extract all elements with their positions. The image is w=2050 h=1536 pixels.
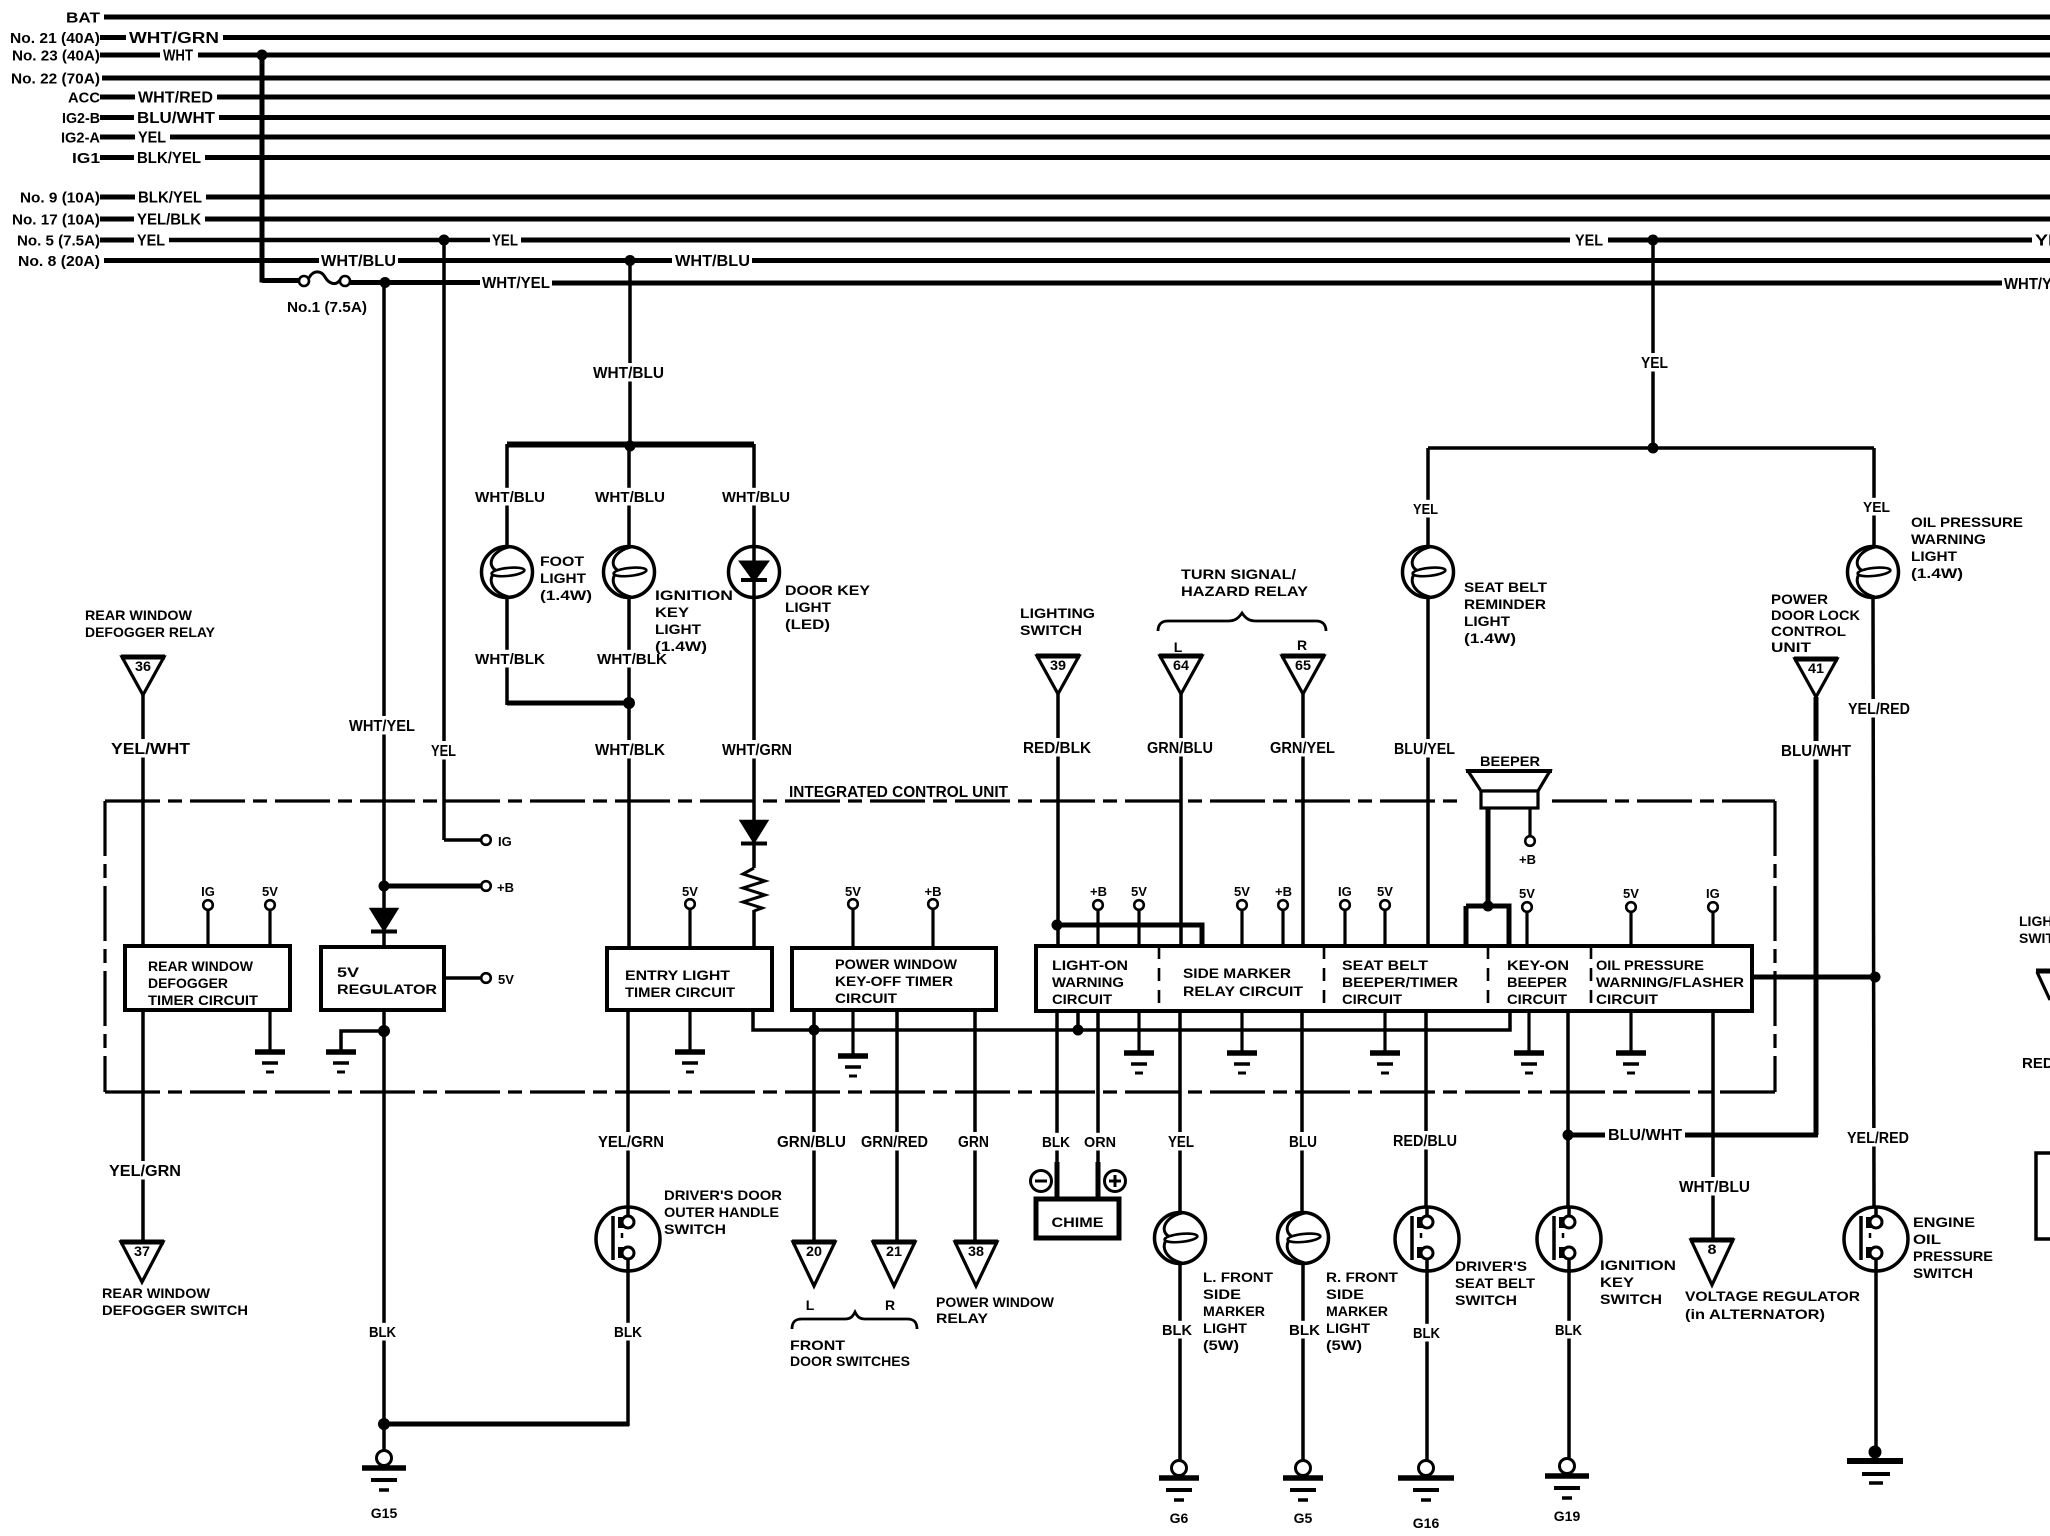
wire BLU/WHT connector 41 down — [1814, 697, 1819, 1135]
svg-text:UNIT: UNIT — [1771, 639, 1812, 655]
svg-text:YEL/GRN: YEL/GRN — [598, 1134, 664, 1151]
label SEAT BELT BEEPER/TIMER CIRCUIT — [1342, 958, 1458, 1007]
lamp SEAT BELT REMINDER LIGHT (1.4W) — [1403, 547, 1454, 598]
net label BLK (chime) — [1039, 1133, 1073, 1151]
label LIGHT-ON WARNING CIRCUIT — [1052, 958, 1128, 1007]
svg-text:LIGH: LIGH — [2019, 913, 2050, 929]
brace FRONT DOOR SWITCHES — [792, 1312, 917, 1329]
svg-text:SIDE MARKER: SIDE MARKER — [1183, 966, 1291, 981]
wire ground stem (oil pressure) — [1629, 1010, 1632, 1051]
svg-text:IGNITION: IGNITION — [1600, 1257, 1676, 1273]
wire staple feed to box top — [1466, 906, 1509, 946]
terminal +B (power window) — [928, 899, 938, 909]
net label ORN (chime) — [1081, 1133, 1119, 1151]
bus wire No. 22 (70A) — [102, 76, 2050, 81]
wire ORN light-on box to chime plus — [1096, 1010, 1100, 1164]
ground G16 — [1398, 1461, 1454, 1532]
svg-text:POWER WINDOW: POWER WINDOW — [835, 957, 957, 972]
wire regulator box to ground junction — [382, 1010, 386, 1031]
junction ground branch (x384 y1031) — [378, 1025, 390, 1037]
svg-text:LIGHT: LIGHT — [1464, 613, 1510, 629]
svg-text:BLK: BLK — [369, 1324, 396, 1341]
pin stem IG (rear defogger) — [206, 909, 209, 946]
terminal IG (oil pressure) — [1708, 902, 1718, 912]
svg-text:IG: IG — [1338, 884, 1352, 899]
wire BLK L bulb to G6 — [1178, 1263, 1182, 1462]
svg-text:G16: G16 — [1413, 1515, 1440, 1531]
chime minus symbol — [1031, 1171, 1052, 1192]
svg-text:BLK/YEL: BLK/YEL — [138, 190, 202, 207]
net label BLK (L side marker) — [1159, 1321, 1195, 1339]
junction on No.5 at x444 — [439, 235, 450, 246]
svg-text:YEL/WHT: YEL/WHT — [111, 741, 190, 758]
pressure-switch ENGINE OIL PRESSURE SWITCH — [1844, 1207, 1908, 1271]
svg-text:WHT/BLU: WHT/BLU — [595, 489, 665, 506]
wire key-on box to ignition key switch — [1566, 1010, 1570, 1208]
svg-text:LIGHT: LIGHT — [785, 599, 831, 615]
svg-text:L: L — [806, 1297, 815, 1313]
connector 8 VOLTAGE REGULATOR — [1690, 1240, 1734, 1285]
label ENTRY LIGHT TIMER CIRCUIT — [625, 968, 736, 1000]
svg-text:SIDE: SIDE — [1203, 1287, 1241, 1302]
wire +B stem from beeper — [1528, 808, 1531, 836]
pin stem +B (power window) — [931, 908, 934, 948]
label TURN SIGNAL/HAZARD RELAY — [1181, 566, 1309, 599]
label REAR WINDOW DEFOGGER SWITCH — [102, 1285, 248, 1318]
wire WHT/BLU oil box to voltage regulator — [1711, 1010, 1715, 1240]
ground G5 — [1283, 1461, 1323, 1527]
pin stem 5V (entry light) — [688, 908, 691, 948]
junction rail at x1078 — [1073, 1025, 1084, 1036]
ground power window timer — [838, 1056, 868, 1076]
svg-text:BLU/WHT: BLU/WHT — [137, 110, 215, 127]
svg-text:DRIVER'S DOOR: DRIVER'S DOOR — [664, 1187, 782, 1203]
wire YEL/RED lamp down to engine switch — [1873, 597, 1874, 1208]
svg-text:WARNING/FLASHER: WARNING/FLASHER — [1596, 975, 1744, 990]
svg-text:No.1 (7.5A): No.1 (7.5A) — [287, 299, 367, 316]
junction on No.8 at x630 — [625, 255, 636, 266]
bus wire No.8 mid — [398, 258, 672, 263]
svg-text:BEEPER/TIMER: BEEPER/TIMER — [1342, 975, 1458, 990]
svg-text:5V: 5V — [1131, 884, 1147, 899]
wire diode to regulator box — [382, 930, 386, 947]
svg-text:INTEGRATED CONTROL UNIT: INTEGRATED CONTROL UNIT — [789, 784, 1009, 801]
ICU border bottom — [105, 1090, 1775, 1093]
svg-text:LIGHT: LIGHT — [1203, 1321, 1248, 1336]
pressure-switch DRIVER'S SEAT BELT SWITCH — [1395, 1207, 1459, 1271]
bus wire No.5 cont2 — [1608, 238, 2032, 243]
wire YEL drop from No.5 bus (x1653) — [1651, 240, 1655, 450]
net label WHT/BLU (voltage regulator) — [1676, 1177, 1753, 1195]
wire ground stem (key-on) — [1527, 1010, 1530, 1051]
svg-text:+B: +B — [1275, 884, 1292, 899]
svg-text:CIRCUIT: CIRCUIT — [1596, 992, 1659, 1007]
wire to fuse No.1 — [262, 278, 299, 283]
svg-text:CIRCUIT: CIRCUIT — [1507, 992, 1568, 1007]
wire YEL vertical from No.5 bus — [442, 240, 446, 840]
pin stem 5V (power window) — [851, 908, 854, 948]
net label YEL (x1653) — [1638, 353, 1671, 371]
LED DOOR KEY LIGHT (LED) — [729, 547, 780, 598]
ground light-on warning — [1124, 1053, 1154, 1073]
net label YEL/GRN (left) — [106, 1161, 184, 1179]
svg-text:WHT/BLU: WHT/BLU — [475, 489, 545, 506]
svg-text:RED/BLU: RED/BLU — [1393, 1133, 1457, 1150]
lamp IGNITION KEY LIGHT (1.4W) — [604, 547, 655, 598]
svg-text:GRN/YEL: GRN/YEL — [1270, 740, 1335, 757]
svg-text:WHT/GRN: WHT/GRN — [722, 742, 792, 759]
label FRONT DOOR SWITCHES — [790, 1337, 910, 1369]
svg-text:BLK/YEL: BLK/YEL — [137, 150, 201, 167]
svg-text:RED/BLK: RED/BLK — [1023, 740, 1091, 757]
label KEY-ON BEEPER CIRCUIT — [1507, 958, 1569, 1007]
ground seat belt beeper — [1370, 1053, 1400, 1073]
svg-text:TURN SIGNAL/: TURN SIGNAL/ — [1181, 566, 1296, 582]
wire drop to seat belt reminder lamp — [1426, 448, 1430, 547]
bus wire No.5 cont — [521, 238, 1570, 243]
svg-text:5V: 5V — [1234, 884, 1250, 899]
terminal 5V (seat belt) — [1380, 900, 1390, 910]
junction BLK rail at G15 — [378, 1418, 390, 1430]
wire oil box output to YEL/RED junction — [1752, 975, 1875, 980]
net label WHT/BLU (door key light) — [719, 488, 793, 506]
wire GRN/BLU connector 64 to side marker box — [1179, 694, 1183, 946]
pin stem IG (seat belt) — [1343, 909, 1346, 946]
junction WHT/YEL at x385 — [380, 277, 391, 288]
connector 38 POWER WINDOW RELAY — [954, 1242, 998, 1286]
svg-text:TIMER CIRCUIT: TIMER CIRCUIT — [625, 985, 736, 1000]
svg-text:REAR WINDOW: REAR WINDOW — [148, 959, 253, 974]
net label RED/BLU — [1390, 1131, 1460, 1149]
svg-text:KEY-OFF TIMER: KEY-OFF TIMER — [835, 974, 953, 989]
junction rail at x814 — [809, 1025, 820, 1036]
net label BLU/WHT (horizontal) — [1605, 1125, 1685, 1143]
wire RED/BLK connector 39 to light-on box — [1056, 694, 1060, 946]
svg-text:SIDE: SIDE — [1326, 1287, 1364, 1302]
junction on No.23 at x262 — [257, 50, 268, 61]
wire ground stem (entry light) — [688, 1010, 691, 1050]
ground rear defogger timer — [255, 1052, 285, 1072]
wire YEL/GRN entry box to door handle switch — [626, 1010, 630, 1208]
net label YEL (L side marker) — [1165, 1132, 1197, 1150]
svg-text:No. 8 (20A): No. 8 (20A) — [18, 253, 100, 270]
svg-text:OUTER HANDLE: OUTER HANDLE — [664, 1204, 779, 1220]
bus wire No. 21 (40A) — [223, 35, 2050, 40]
svg-text:KEY: KEY — [655, 604, 690, 620]
wire 5V terminal from regulator box — [444, 976, 481, 980]
wire +B feed to terminal — [384, 884, 481, 889]
wire ground stem (light-on) — [1137, 1010, 1140, 1051]
label REAR WINDOW DEFOGGER TIMER CIRCUIT — [148, 959, 259, 1008]
label DOOR KEY LIGHT (LED) — [785, 582, 871, 632]
wire BLK R bulb to G5 — [1301, 1263, 1305, 1462]
wire WHT/YEL down to G15 junction — [382, 1031, 386, 1424]
net label WHT/BLU (vertical x630) — [590, 363, 667, 381]
svg-text:8: 8 — [1708, 1242, 1718, 1257]
net label GRN (bottom) — [955, 1132, 992, 1150]
svg-text:5V: 5V — [1519, 886, 1535, 901]
terminal 5V (side marker) — [1237, 900, 1247, 910]
svg-text:IG: IG — [498, 834, 512, 849]
net label BLU (R side marker) — [1286, 1132, 1320, 1150]
ground key-on beeper — [1514, 1053, 1544, 1073]
label SIDE MARKER RELAY CIRCUIT — [1183, 966, 1304, 999]
svg-text:GRN/RED: GRN/RED — [861, 1134, 928, 1151]
net label BLK (seat belt) — [1410, 1324, 1443, 1342]
connector 65 turn signal R — [1281, 656, 1325, 694]
wire YEL side marker box to L bulb — [1178, 1010, 1182, 1213]
wire ignition key light to lower rail — [627, 597, 631, 703]
svg-text:YEL: YEL — [1413, 501, 1438, 518]
connector 64 turn signal L — [1159, 656, 1203, 694]
wire YEL top rail to lamps — [1428, 446, 1874, 450]
svg-text:WHT/YEL: WHT/YEL — [482, 275, 550, 292]
svg-text:5V: 5V — [1377, 884, 1393, 899]
wire BLK door handle switch to rail — [626, 1271, 630, 1426]
bus wire IG2-B — [219, 115, 2050, 120]
net label YEL (seat belt lamp) — [1410, 500, 1441, 518]
net label WHT/BLU (foot light) — [472, 488, 548, 506]
terminal 5V (power window) — [848, 899, 858, 909]
svg-text:RELAY CIRCUIT: RELAY CIRCUIT — [1183, 984, 1304, 999]
svg-text:WHT/BLK: WHT/BLK — [595, 742, 665, 759]
svg-text:SWITCH: SWITCH — [664, 1221, 726, 1237]
svg-text:DOOR LOCK: DOOR LOCK — [1771, 607, 1860, 623]
svg-text:(1.4W): (1.4W) — [540, 587, 592, 603]
wire YEL to IG terminal — [444, 838, 481, 842]
svg-text:G19: G19 — [1554, 1508, 1581, 1524]
svg-text:(5W): (5W) — [1203, 1338, 1239, 1353]
ground G19 — [1545, 1459, 1589, 1525]
svg-text:BLK: BLK — [1555, 1322, 1582, 1339]
svg-text:DRIVER'S: DRIVER'S — [1455, 1258, 1527, 1274]
svg-text:38: 38 — [968, 1244, 985, 1259]
svg-text:LIGHT-ON: LIGHT-ON — [1052, 958, 1128, 973]
wire GRN to connector 38 — [973, 1010, 977, 1242]
svg-text:LIGHT: LIGHT — [540, 570, 586, 586]
net label RED/BLK — [1020, 738, 1094, 756]
svg-text:SWITCH: SWITCH — [1913, 1265, 1973, 1281]
terminal IG (rear defogger) — [203, 900, 213, 910]
net label GRN/YEL (upper) — [1267, 738, 1338, 756]
svg-text:SWITCH: SWITCH — [1455, 1292, 1517, 1308]
svg-text:RED: RED — [2022, 1055, 2050, 1072]
wire dash No. 5 (7.5A) — [100, 238, 134, 243]
svg-text:KEY-ON: KEY-ON — [1507, 958, 1569, 973]
label R. FRONT SIDE MARKER LIGHT (5W) — [1326, 1270, 1399, 1353]
svg-text:IG2-B: IG2-B — [62, 110, 100, 127]
wire ground stem (power window) — [851, 1010, 854, 1054]
net label GRN/RED (bottom) — [858, 1132, 931, 1150]
pressure-switch IGNITION KEY SWITCH — [1537, 1207, 1601, 1271]
svg-text:POWER WINDOW: POWER WINDOW — [936, 1294, 1055, 1310]
net label BLK (door handle) — [611, 1323, 645, 1341]
pin stem 5V (key-on) — [1525, 911, 1528, 948]
junction lower rail at x629 — [623, 697, 635, 709]
svg-text:GRN: GRN — [958, 1134, 989, 1151]
wire GRN/RED to connector 21 — [895, 1010, 899, 1242]
svg-text:WARNING: WARNING — [1052, 975, 1124, 990]
svg-text:R: R — [1297, 637, 1307, 653]
bus wire No. 9 (10A) — [206, 195, 2050, 200]
wire WHT/YEL to right edge — [552, 281, 2002, 286]
svg-text:YEL/RED: YEL/RED — [1847, 1130, 1909, 1147]
svg-text:HAZARD RELAY: HAZARD RELAY — [1181, 583, 1309, 599]
fuse No.1 (7.5A) — [299, 272, 350, 286]
junction RED/BLK feed — [1052, 920, 1063, 931]
wire ORN thick to chime — [1096, 1162, 1101, 1201]
connector 21 front door switch R — [872, 1242, 916, 1286]
wire WHT vertical drop from No.23 bus — [260, 55, 265, 283]
wire WHT/YEL vertical (fuse to regulator) — [382, 283, 386, 910]
bus wire No.8 right — [752, 258, 2050, 263]
net label WHT/BLK (to ICU) — [592, 740, 668, 758]
svg-text:FRONT: FRONT — [790, 1337, 846, 1353]
net label GRN/BLU (upper) — [1144, 738, 1216, 756]
net label WHT/BLK (foot light) — [472, 650, 548, 668]
svg-text:L: L — [1174, 639, 1183, 655]
pin stem +B (side marker) — [1281, 909, 1284, 946]
svg-text:YEL/GRN: YEL/GRN — [109, 1163, 181, 1180]
wire YEL/GRN timer box to connector 37 — [141, 1010, 145, 1242]
svg-text:5V: 5V — [682, 884, 698, 899]
svg-text:WHT/BLU: WHT/BLU — [675, 253, 750, 270]
pressure-switch DRIVER'S DOOR OUTER HANDLE SWITCH — [596, 1207, 660, 1271]
terminal 5V (rear defogger) — [265, 900, 275, 910]
label POWER WINDOW KEY-OFF TIMER CIRCUIT — [835, 957, 957, 1006]
label VOLTAGE REGULATOR (in ALTERNATOR) — [1685, 1288, 1860, 1322]
wire engine switch to ground — [1874, 1271, 1878, 1450]
wire WHT/YEL from fuse — [350, 280, 480, 285]
net label WHT/BLU (ignition key light) — [592, 488, 668, 506]
net label BLU/WHT (vertical) — [1778, 741, 1854, 759]
wire beeper to staple junction — [1486, 808, 1491, 906]
beeper speaker symbol — [1466, 771, 1552, 808]
svg-text:ENTRY LIGHT: ENTRY LIGHT — [625, 968, 731, 983]
svg-text:5V: 5V — [845, 884, 861, 899]
ground G6 — [1159, 1461, 1199, 1527]
wire lamp lower rail — [507, 701, 629, 706]
terminal 5V (5V regulator) — [481, 973, 491, 983]
wire drop to ignition key light — [627, 444, 631, 547]
lamp FOOT LIGHT (1.4W) — [482, 547, 533, 598]
connector 37 REAR WINDOW DEFOGGER SWITCH — [120, 1242, 164, 1282]
wire BLK thick to chime — [1055, 1162, 1060, 1201]
svg-text:YEL: YEL — [1575, 233, 1603, 250]
label REAR WINDOW DEFOGGER RELAY — [85, 607, 216, 640]
svg-text:ENGINE: ENGINE — [1913, 1214, 1975, 1230]
connector 20 front door switch L — [792, 1242, 836, 1286]
svg-text:YEL: YEL — [1641, 355, 1668, 372]
terminal IG (seat belt) — [1340, 900, 1350, 910]
pin stem +B (light-on) — [1096, 909, 1099, 946]
net label BLU/YEL — [1391, 739, 1458, 757]
svg-text:(1.4W): (1.4W) — [1464, 630, 1516, 646]
svg-text:WARNING: WARNING — [1911, 531, 1986, 547]
connector 36 REAR WINDOW DEFOGGER RELAY — [121, 657, 165, 695]
net label BLK (ignition key) — [1552, 1321, 1585, 1339]
label LIGHTING SWITCH (cut at right edge) — [2019, 913, 2050, 946]
svg-text:WHT/BLU: WHT/BLU — [321, 253, 396, 270]
terminal IG (5V regulator) — [481, 835, 491, 845]
wire BLU/WHT horizontal left part — [1570, 1133, 1605, 1138]
svg-text:YEL: YEL — [492, 233, 518, 250]
wire BLK ignition key switch to G19 — [1567, 1271, 1571, 1460]
ICU border left — [103, 801, 106, 1092]
wire WHT/BLU vertical from No.8 bus — [628, 261, 632, 448]
ground oil pressure warning — [1616, 1053, 1646, 1073]
wire ground stem (side marker) — [1240, 1010, 1243, 1051]
label ENGINE OIL PRESSURE SWITCH — [1913, 1214, 1993, 1281]
net label BLK (R side marker) — [1286, 1321, 1323, 1339]
pin stem 5V (oil pressure) — [1629, 911, 1632, 948]
svg-text:WHT/YEL: WHT/YEL — [349, 718, 415, 735]
ground engine oil pressure switch — [1847, 1446, 1903, 1484]
net label YEL/RED (upper) — [1845, 699, 1913, 717]
svg-text:G6: G6 — [1170, 1510, 1189, 1526]
label IGNITION KEY SWITCH — [1600, 1257, 1676, 1307]
svg-text:ACC: ACC — [68, 90, 100, 107]
ICU border top-right segment — [1552, 799, 1775, 802]
svg-text:(1.4W): (1.4W) — [1911, 565, 1963, 581]
svg-text:OIL PRESSURE: OIL PRESSURE — [1911, 514, 2023, 530]
svg-text:DOOR SWITCHES: DOOR SWITCHES — [790, 1353, 910, 1369]
svg-text:BLU: BLU — [1289, 1134, 1317, 1151]
wire dash IG1 — [100, 155, 134, 160]
svg-text:CHIME: CHIME — [1052, 1214, 1104, 1230]
lamp L FRONT SIDE MARKER LIGHT (5W) — [1155, 1213, 1206, 1264]
wire shared bottom rail y1030 — [753, 1010, 1510, 1030]
bus wire BAT — [104, 15, 2050, 20]
diode D2 (entry light) — [741, 821, 767, 844]
svg-text:BLK: BLK — [1413, 1325, 1440, 1342]
svg-text:WHT/GRN: WHT/GRN — [129, 30, 219, 47]
wire dash No. 17 (10A) — [100, 217, 134, 222]
svg-text:IG: IG — [1706, 886, 1720, 901]
wire feed to side marker box top — [1057, 925, 1202, 946]
junction rail at x630 — [625, 441, 636, 452]
svg-text:+B: +B — [1519, 852, 1536, 867]
terminal +B (side marker) — [1278, 900, 1288, 910]
svg-text:SWITCH: SWITCH — [1600, 1291, 1662, 1307]
wire RED/BLU seat belt box to switch — [1424, 1010, 1428, 1208]
wire lamp top rail — [507, 442, 754, 448]
bus wire No. 17 (10A) — [205, 217, 2050, 222]
wire ground stem (rear defogger) — [268, 1010, 271, 1050]
svg-text:WHT/BLU: WHT/BLU — [593, 365, 664, 382]
svg-text:WHT/BLU: WHT/BLU — [722, 489, 790, 506]
bus wire No. 8 (20A) — [104, 258, 319, 263]
terminal +B (beeper) — [1525, 836, 1535, 846]
svg-text:FOOT: FOOT — [540, 553, 584, 569]
bus wire IG2-A — [170, 135, 2050, 140]
label OIL PRESSURE WARNING LIGHT (1.4W) — [1911, 514, 2023, 581]
pin stem 5V (side marker) — [1240, 909, 1243, 946]
junction on No.5 at x1653 — [1648, 235, 1659, 246]
svg-text:41: 41 — [1808, 661, 1825, 676]
svg-text:BAT: BAT — [66, 10, 100, 27]
junction YEL rail — [1648, 443, 1659, 454]
svg-text:(in ALTERNATOR): (in ALTERNATOR) — [1685, 1306, 1825, 1322]
net label WHT/YEL (vertical) — [346, 716, 418, 734]
net label YEL/GRN (door handle) — [595, 1132, 667, 1150]
svg-text:BLK: BLK — [1162, 1322, 1192, 1339]
divider light-on / side marker — [1158, 946, 1161, 1011]
bus wire No. 5 (7.5A) — [169, 238, 490, 243]
wire BLK rail (to door switch leg) — [384, 1422, 629, 1427]
net label BLK (to G15) — [366, 1323, 399, 1341]
svg-text:REAR WINDOW: REAR WINDOW — [85, 607, 193, 623]
